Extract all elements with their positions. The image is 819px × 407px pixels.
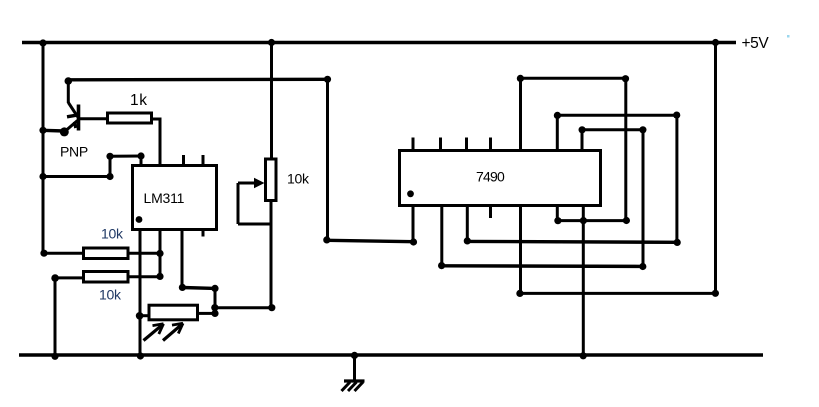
svg-text:10k: 10k — [99, 287, 122, 303]
R4 wiper arrow shaft — [238, 182, 258, 185]
wire R3 left lead — [55, 276, 84, 279]
wire y=156 — [110, 155, 141, 158]
node x=182 bottom — [179, 284, 186, 291]
wire R1 right lead — [153, 118, 161, 121]
node x=327 bottom corner — [323, 236, 330, 243]
wire 7490 bottom pin x=413 — [412, 207, 415, 242]
node collector net corner x=327 — [324, 76, 331, 83]
wire 7490 bottom pin x=583 down to bottom rail — [582, 207, 585, 356]
wire y=241 to 7490 pin — [327, 240, 414, 241]
node bracket2 left — [554, 112, 561, 119]
node x=140 / pot left lead — [136, 312, 144, 320]
node x=583 / bottom rail — [580, 352, 587, 359]
wire Q1 collector vertical — [67, 81, 70, 103]
resistor R3 10k — [51, 272, 160, 360]
IC U2 7490 — [400, 138, 601, 206]
wire Q1 collector diagonal — [68, 103, 78, 118]
ground bar — [344, 379, 365, 382]
node corner x=141 y=156 — [137, 152, 144, 159]
op-amp U1 LM311 — [133, 155, 217, 237]
node x=715 y=293 — [712, 290, 719, 297]
node x=160 / R3 lead — [156, 273, 163, 280]
svg-text:10k: 10k — [287, 171, 310, 187]
LM311 top stub pin b — [202, 155, 205, 164]
node bracket1 bottom — [623, 217, 630, 224]
node x=215 y=313 — [211, 310, 218, 317]
wire LM311 pin x=182 down — [181, 231, 184, 288]
wire y=288 from x=182 to x=215 — [182, 286, 215, 290]
node corner x=110 y=176 — [106, 173, 113, 180]
wire bracket3 horizontal y=130 — [582, 128, 643, 131]
R5 arrow 1 barb b — [159, 324, 164, 334]
7490 bottom pins — [413, 207, 719, 359]
node bracket3 bottom — [639, 263, 646, 270]
wire bracket2 horizontal y=115 — [557, 114, 677, 117]
potentiometer R5 (horizontal, trimmed) — [140, 305, 198, 340]
wire R1 lead down to LM311 top — [159, 118, 162, 165]
ground symbol — [342, 352, 365, 391]
node bracket3 right — [639, 126, 646, 133]
svg-text:PNP: PNP — [60, 144, 88, 160]
wire x=141 into LM311 top — [140, 156, 143, 164]
node bracket3 left — [579, 126, 586, 133]
node y=220.6 crossing x=583 — [580, 217, 587, 224]
wire LM311 pin x=160 down — [159, 231, 162, 277]
wire Q1 base to R1 — [79, 117, 107, 120]
Q1 emitter arrowhead barb 2 — [75, 122, 76, 128]
wire x=110 up — [109, 156, 112, 176]
7490 top stub pin 3 — [465, 138, 468, 150]
node left rail / emitter junction — [39, 127, 46, 134]
bracket 1 (top pin x=520 to x=626 down to y=220) — [517, 75, 630, 224]
resistor R2 10k — [40, 248, 160, 259]
node x=140 / bottom rail — [137, 352, 144, 359]
zigzag net from left rail to LM311 pin — [39, 152, 144, 180]
bracket 3 (top pin x=582 to x=643 down to y=266) — [579, 126, 647, 270]
node top rail / R4 junction — [268, 39, 275, 46]
wire 7490 bottom pin x=441 — [440, 207, 443, 266]
wire y=241.5 from x=467 to x=677 — [467, 240, 677, 244]
ground hatch 2 — [348, 382, 357, 391]
wire from top rail down to pot R4 top — [270, 43, 273, 160]
wire 7490 bottom pin x=467 — [466, 207, 469, 241]
wire R4 bottom lead — [270, 201, 273, 308]
svg-text:1k: 1k — [130, 92, 148, 109]
R5 arrow 1 barb a — [153, 324, 164, 326]
node x=55 / bottom rail — [51, 353, 58, 360]
node x=160 / R2 lead — [156, 250, 163, 257]
wire bracket3 right vertical x=643 — [642, 130, 645, 267]
node pin x=441 bottom — [438, 262, 445, 269]
LM311 bottom stub pin — [202, 231, 205, 237]
node collector corner — [65, 77, 73, 85]
svg-text:LM311: LM311 — [144, 190, 185, 206]
wire R2 left lead — [44, 252, 84, 255]
R5 arrow 2 barb a — [172, 323, 183, 325]
svg-text:10k: 10k — [101, 226, 124, 242]
wire R3 right lead — [128, 275, 160, 278]
wire R4 wiper down — [237, 183, 240, 224]
wire emitter to left rail — [42, 129, 64, 133]
ground hatch 1 — [342, 382, 351, 391]
node Q1 emitter blob — [60, 127, 69, 136]
bracket 2 (top pin x=557 to x=677 down to y=242) — [554, 112, 681, 246]
wire y=307 to pot R4 bottom — [215, 306, 272, 309]
wire LM311 pin x=140 down to bottom rail — [139, 231, 142, 357]
junction column x=215 — [182, 285, 275, 317]
node left rail y=176 — [39, 173, 46, 180]
7490 top stub pin 1 — [412, 138, 415, 150]
wire 7490 bottom pin x=557 — [556, 207, 559, 221]
wire left vertical rail — [42, 43, 45, 254]
node pot R4 bottom — [268, 304, 275, 311]
transistor Q1 PNP — [39, 81, 106, 136]
wire bracket1 right vertical x=626 — [624, 78, 627, 220]
stray cyan speck — [787, 35, 790, 38]
node pin x=557 bottom — [554, 217, 561, 224]
wire y=313 to R5 right lead — [199, 312, 215, 315]
svg-text:+5V: +5V — [742, 35, 770, 52]
wire x=215 vertical — [214, 288, 217, 313]
wire x=55 down to bottom rail — [54, 278, 57, 357]
wire +5V column x=715 down to y=293 — [714, 43, 717, 294]
node pin x=467 bottom — [464, 237, 471, 244]
wire bracket1 horizontal y=78 — [521, 77, 626, 80]
7490 top stub pin 2 — [439, 138, 442, 150]
node corner x=110 y=156 — [106, 153, 113, 160]
wire ground stub — [353, 355, 356, 381]
wire y=176 — [43, 175, 110, 178]
wire R4 wiper to bottom lead — [238, 223, 271, 226]
wire collector net horizontal y=79 — [68, 78, 328, 82]
wire bottom ground rail — [19, 353, 763, 357]
wire top +5V rail — [22, 41, 736, 44]
resistor R1 1k — [108, 113, 161, 164]
node 7490 pin bottom-left — [410, 238, 417, 245]
Q1 emitter diagonal — [64, 121, 77, 132]
node bracket2 right — [673, 112, 680, 119]
wire y=266 from x=441 to x=643 — [442, 264, 643, 268]
node bracket1 right — [622, 75, 629, 82]
node x=215 y=288 — [211, 285, 218, 292]
R5 arrow 2 shaft — [163, 323, 183, 340]
7490 top stub pin 4 — [489, 138, 492, 150]
node top rail / left rail junction — [39, 39, 46, 46]
wire R2 right lead — [128, 252, 160, 255]
7490 bottom stub pin x=490 — [489, 207, 492, 218]
LM311 top stub pin a — [182, 155, 185, 164]
node R3 left / x=55 column — [51, 274, 59, 282]
wire R5 left lead — [140, 314, 149, 317]
svg-text:7490: 7490 — [476, 169, 505, 185]
node bracket1 left — [517, 75, 524, 82]
R4 wiper arrowhead — [254, 178, 265, 189]
R5 arrow 1 shaft — [144, 324, 164, 341]
potentiometer R4 10k (vertical) — [238, 159, 276, 308]
wire bracket2 right vertical x=677 — [675, 115, 678, 242]
node x=215 y=307 — [211, 304, 218, 311]
LM311 bottom pin wires — [136, 231, 186, 360]
LM311 pin1 dot — [136, 216, 143, 223]
node bracket2 bottom — [674, 239, 681, 246]
node top rail / +5V column junction — [712, 39, 719, 46]
node bottom rail / ground — [351, 352, 358, 359]
ground hatch 3 — [355, 382, 364, 391]
wire 7490 top pin x=520 — [519, 78, 522, 149]
Q1 base bar — [77, 105, 81, 131]
wire 7490 top pin x=557 — [556, 115, 559, 149]
wire y=293 from x=520 to x=715 — [521, 292, 716, 295]
node left rail end / R2 — [40, 250, 47, 257]
wire y=220.6 from x=557 to x=626 — [557, 219, 626, 222]
wire x=327 vertical down — [326, 79, 329, 240]
node x=520 y=293 — [516, 290, 523, 297]
R5 arrow 2 barb b — [178, 323, 183, 333]
Q1 emitter arrowhead barb 1 — [67, 115, 76, 117]
7490 pin1 dot — [407, 190, 414, 197]
wire 7490 bottom pin x=520 down to y=293 — [519, 207, 522, 293]
wire 7490 top pin x=582 — [581, 130, 584, 149]
